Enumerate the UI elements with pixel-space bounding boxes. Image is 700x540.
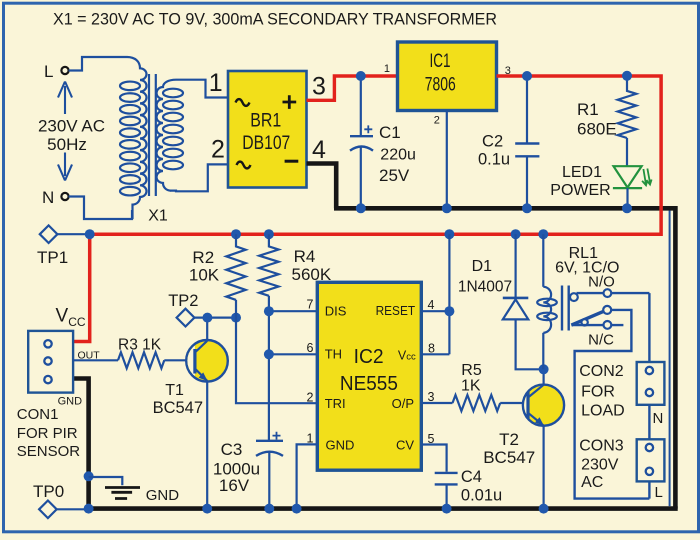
svg-text:X1 = 230V AC TO 9V, 300mA SECO: X1 = 230V AC TO 9V, 300mA SECONDARY TRAN… (53, 11, 497, 29)
capacitor C1 plus plate (350, 135, 373, 137)
wire DIS (269, 310, 318, 312)
svg-text:GND: GND (326, 438, 355, 453)
svg-text:DIS: DIS (325, 304, 347, 319)
svg-text:16V: 16V (219, 476, 250, 495)
BR1 minus mark (285, 160, 299, 163)
LED1 triangle (614, 166, 642, 187)
relay N/O contact line (577, 292, 650, 294)
svg-text:3: 3 (312, 72, 326, 100)
svg-text:TP1: TP1 (37, 248, 68, 267)
wire IC1 pin2 to ground (446, 111, 448, 209)
capacitor C4 wires (421, 445, 446, 509)
relay N/C contact circle (604, 321, 612, 329)
svg-text:L: L (655, 484, 663, 501)
connector CON1 body (28, 331, 73, 393)
transformer X1 secondary loops (163, 89, 183, 170)
relay RL1 coil wire top (542, 234, 544, 287)
capacitor C2 wires (526, 76, 528, 208)
node TP1 / +6V (85, 229, 95, 239)
svg-text:L: L (44, 62, 53, 81)
svg-text:RESET: RESET (376, 303, 416, 318)
svg-text:T1: T1 (165, 382, 184, 399)
T2 emitter wire (542, 426, 544, 509)
wire IC2 GND to rail (297, 444, 318, 508)
node IC1 pin2 gnd (442, 203, 452, 213)
T2 collector (528, 369, 544, 397)
wire TH (269, 353, 318, 355)
wire R5 to T2 base (500, 402, 527, 404)
resistor R1 (618, 76, 637, 166)
svg-text:C1: C1 (379, 123, 401, 142)
diode D1 wire bottom (516, 319, 544, 369)
wire CON1 GND to bottom rail (73, 379, 89, 509)
svg-text:AC: AC (581, 474, 603, 491)
transistor T2 body (523, 385, 564, 426)
wire R4 to C3 (268, 296, 270, 440)
terminal N (61, 193, 68, 200)
svg-text:10K: 10K (189, 266, 220, 285)
svg-text:N/C: N/C (588, 332, 614, 349)
wire secondary to BR1 pin1 (176, 80, 228, 98)
node R1 top (622, 71, 632, 81)
bottom ground rail (86, 506, 677, 511)
relay N/O contact circle (604, 289, 612, 297)
node C1 bottom (356, 203, 366, 213)
svg-text:2: 2 (307, 391, 314, 405)
capacitor C1 wire bottom (360, 147, 362, 208)
svg-text:FOR PIR: FOR PIR (17, 425, 78, 442)
svg-text:TP0: TP0 (33, 482, 64, 501)
transistor T1 body (186, 340, 228, 382)
test point TP0 (39, 501, 57, 519)
svg-text:DB107: DB107 (242, 133, 290, 154)
svg-text:50Hz: 50Hz (47, 135, 87, 154)
wire IC1 out / +6V rail (red) (90, 76, 661, 234)
transformer X1 primary winding (127, 57, 147, 219)
diode D1 triangle (503, 299, 529, 319)
capacitor C1 wire top (360, 76, 362, 135)
capacitor C1 polarity mark (364, 125, 372, 133)
T1 emitter (195, 369, 207, 381)
capacitor C3 curved plate (256, 452, 283, 456)
wire RESET/Vcc to +6V (421, 234, 449, 354)
svg-text:230V: 230V (581, 457, 619, 474)
timer IC2 body (317, 282, 421, 470)
transformer X1 secondary winding (157, 80, 177, 191)
T1 collector (195, 318, 207, 353)
svg-text:680E: 680E (577, 120, 617, 139)
arrow up (mains) (58, 82, 72, 115)
svg-text:N/O: N/O (588, 274, 615, 291)
svg-text:GND: GND (146, 487, 180, 504)
svg-text:CON1: CON1 (17, 406, 59, 423)
svg-text:2: 2 (434, 115, 440, 127)
svg-text:C4: C4 (461, 468, 482, 486)
svg-text:0.1u: 0.1u (478, 151, 510, 169)
node D1/RL1/T2 junction (539, 364, 549, 374)
node reset rail (444, 229, 454, 239)
svg-text:LED1: LED1 (562, 164, 602, 181)
wire CON1 OUT to R3 (73, 359, 118, 361)
wire R3 to T1 base (164, 359, 194, 361)
svg-text:25V: 25V (379, 166, 410, 185)
svg-text:N: N (653, 410, 664, 427)
svg-text:7: 7 (307, 298, 314, 312)
node GND tap (84, 471, 94, 481)
node RESET junction (444, 306, 454, 316)
svg-text:FOR: FOR (581, 384, 615, 401)
wire TP1 (57, 233, 89, 235)
resistor R5 (453, 395, 501, 411)
node D1 top (511, 229, 521, 239)
svg-text:R5: R5 (461, 362, 482, 379)
relay common contact circle (603, 306, 611, 314)
resistor R3 (118, 352, 164, 368)
wire R2 to TRI (236, 300, 318, 403)
wire O/P to R5 (421, 402, 452, 404)
svg-text:BC547: BC547 (483, 448, 535, 467)
transformer X1 core (149, 74, 156, 196)
wire TP0 (57, 508, 89, 510)
T2 base bar (526, 392, 529, 419)
node LED1 bottom (622, 203, 632, 213)
node R2 top (231, 229, 241, 239)
CON2 pin holes (646, 367, 653, 396)
CON1 pin holes (44, 340, 51, 383)
LED1 cathode bar (613, 187, 642, 189)
relay RL1 coil wire bottom (542, 333, 544, 370)
relay armature pivot circle (581, 319, 587, 325)
svg-text:230V AC: 230V AC (38, 116, 105, 135)
BR1 plus mark (283, 95, 297, 109)
relay RL1 coil (543, 287, 551, 333)
wire TP2 to R2 (194, 317, 236, 319)
capacitor C3 polarity mark (273, 432, 281, 440)
resistor R4 (259, 234, 278, 296)
wire L to primary (69, 57, 127, 71)
node C3 gnd (264, 504, 274, 514)
svg-text:IC1: IC1 (430, 51, 451, 72)
wire CON2 to CON3 (N) (648, 405, 650, 440)
ground rail (power section) (334, 206, 675, 211)
svg-text:1: 1 (209, 69, 223, 97)
T2 emitter arrow (535, 417, 544, 426)
svg-text:TRI: TRI (325, 396, 346, 411)
svg-text:BC547: BC547 (153, 399, 203, 417)
node R2 bottom (231, 313, 241, 323)
LED1 wire bottom (626, 188, 628, 208)
capacitor C4 plates (435, 473, 458, 485)
CON3 pin holes (646, 444, 653, 475)
resistor R2 (226, 234, 245, 300)
relay pole circle (570, 293, 578, 301)
svg-text:CON3: CON3 (579, 438, 624, 455)
node DIS junction (264, 306, 274, 316)
node T2 emitter gnd (539, 504, 549, 514)
node IC2 gnd (292, 504, 302, 514)
svg-text:220u: 220u (380, 147, 416, 164)
node C1 top (356, 71, 366, 81)
T1 emitter arrow (199, 372, 208, 381)
bridge rectifier BR1 body (228, 71, 307, 188)
node T1 collector (202, 313, 212, 323)
svg-text:R4: R4 (294, 247, 316, 266)
ground wire right side vertical (673, 206, 678, 509)
svg-text:C3: C3 (221, 440, 243, 459)
relay RL1 core (562, 286, 569, 331)
arrow down (mains) (58, 153, 72, 181)
svg-text:SENSOR: SENSOR (17, 443, 81, 460)
wire common to CON3 L (575, 310, 650, 499)
wire +6V to CON1 Vcc (red) (73, 234, 90, 341)
wire secondary to BR1 pin2 (170, 164, 228, 191)
BR1 ac mark bottom (237, 162, 251, 169)
transformer X1 primary loops (120, 82, 140, 196)
svg-text:D1: D1 (472, 258, 493, 275)
diode D1 wire top (514, 234, 516, 297)
ground symbol bars (105, 488, 140, 499)
svg-text:O/P: O/P (392, 396, 414, 411)
connector CON3 body (637, 439, 665, 481)
BR1 ac mark top (236, 99, 250, 106)
svg-text:2: 2 (211, 136, 225, 164)
svg-text:0.01u: 0.01u (461, 487, 502, 505)
node C2 bottom (522, 203, 532, 213)
node TH junction (264, 349, 274, 359)
svg-text:T2: T2 (499, 430, 519, 449)
terminal L (61, 67, 68, 74)
svg-text:CON2: CON2 (579, 363, 624, 380)
svg-text:BR1: BR1 (250, 110, 281, 131)
wire N to primary (69, 197, 132, 220)
test point TP2 (177, 309, 195, 327)
node C2 top (522, 71, 532, 81)
voltage regulator IC1 body (398, 42, 497, 111)
svg-text:X1: X1 (148, 208, 168, 225)
svg-text:7806: 7806 (425, 75, 456, 96)
svg-text:C2: C2 (482, 132, 503, 150)
svg-text:1: 1 (384, 63, 390, 75)
svg-text:6: 6 (307, 341, 314, 355)
svg-text:GND: GND (58, 396, 83, 408)
node R4 top (264, 229, 274, 239)
svg-text:IC2: IC2 (354, 346, 384, 368)
svg-text:R2: R2 (192, 248, 214, 267)
capacitor C2 plates (515, 144, 539, 157)
svg-text:1N4007: 1N4007 (458, 279, 512, 296)
svg-text:LOAD: LOAD (581, 403, 625, 420)
node TP0/CON1 gnd (84, 504, 94, 514)
connector CON2 body (637, 362, 665, 405)
T2 emitter (528, 413, 544, 426)
capacitor C3 plus plate (256, 440, 283, 442)
relay N/C contact line (571, 324, 623, 326)
svg-text:R3 1K: R3 1K (118, 337, 162, 354)
svg-text:POWER: POWER (550, 182, 610, 199)
wire BR1 pin3 to IC1 (red +9V) (307, 76, 398, 100)
LED1 light arrows (642, 169, 652, 186)
relay RL1 coil loops (537, 299, 557, 320)
svg-text:1K: 1K (461, 378, 481, 395)
ground symbol stem (89, 477, 123, 485)
svg-text:CV: CV (396, 438, 414, 453)
relay armature (571, 310, 607, 325)
svg-text:4: 4 (312, 136, 326, 164)
svg-text:Vcc: Vcc (398, 348, 416, 362)
test point TP1 (40, 225, 58, 243)
svg-text:N: N (42, 188, 54, 207)
wire N/O to CON2 (648, 293, 650, 362)
T1 emitter wire (206, 381, 208, 509)
node RL1 top (538, 229, 548, 239)
node T1 emitter gnd (202, 504, 212, 514)
capacitor C1 curved plate (350, 147, 373, 151)
svg-text:NE555: NE555 (340, 373, 398, 395)
parallel blue line along right ground (669, 211, 671, 507)
svg-text:R1: R1 (577, 100, 599, 119)
node C4 gnd (442, 504, 452, 514)
svg-text:TH: TH (325, 347, 342, 362)
svg-text:4: 4 (428, 298, 435, 312)
svg-text:TP2: TP2 (168, 292, 198, 310)
T1 base bar (193, 349, 196, 374)
diode D1 cathode bar (503, 297, 529, 300)
capacitor C3 wire bottom (268, 452, 270, 509)
wire BR1 pin4 ground (black) (307, 164, 337, 209)
